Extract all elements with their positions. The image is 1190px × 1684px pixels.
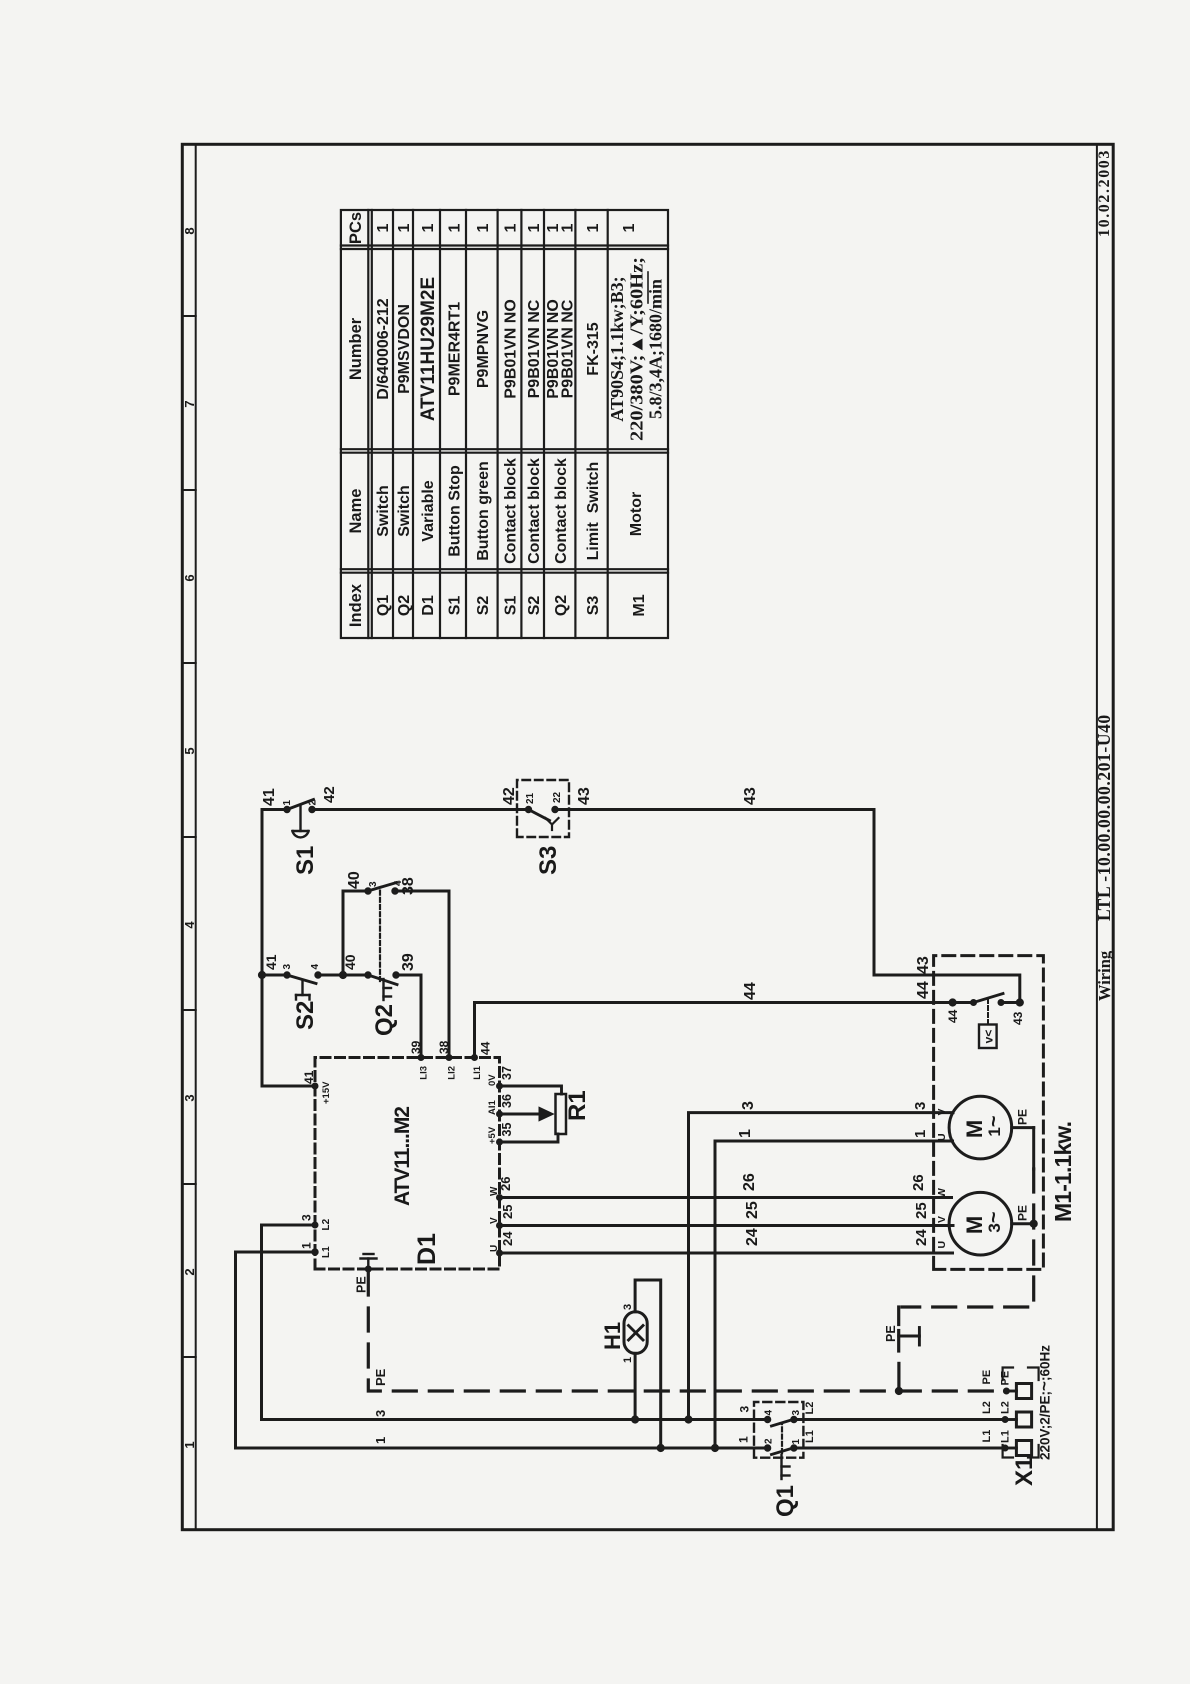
svg-text:S3: S3 [585,596,602,616]
wire 38 net Q2 aux to LI2 [395,891,449,1058]
wire 39 label at Q2 [400,953,417,971]
wire 24 net U to motor [500,1252,953,1255]
wire 25 net V to motor [500,1224,954,1227]
svg-text:3: 3 [373,1410,388,1417]
S3 roller actuator [546,818,559,830]
wire 39 net Q2 to LI3 [396,975,421,1058]
svg-text:1: 1 [560,223,577,232]
svg-text:35: 35 [500,1123,514,1137]
svg-text:LTL -10.00.00.00.201-U40: LTL -10.00.00.00.201-U40 [1094,714,1114,921]
overline over min [647,272,649,303]
svg-text:44: 44 [946,1009,960,1023]
svg-text:41: 41 [302,1070,316,1084]
D1 PE label [355,1276,369,1293]
svg-text:PE: PE [373,1368,388,1386]
svg-text:ATV11...M2: ATV11...M2 [391,1106,414,1206]
svg-text:PE: PE [1000,1371,1012,1386]
S3 pin 21 label [525,792,536,804]
wire 38 label at Q2 [400,877,417,895]
svg-text:+5V: +5V [487,1126,498,1144]
S2 pin 4 label [310,964,321,970]
svg-text:4: 4 [182,921,197,929]
svg-text:3: 3 [738,1406,752,1413]
table header row [347,212,365,627]
svg-text:43: 43 [742,787,759,805]
svg-text:1: 1 [622,1357,634,1363]
X1 terminal PE block [1006,1384,1031,1399]
svg-text:1: 1 [373,1437,388,1444]
svg-text:44: 44 [915,981,932,999]
H1 junction on wire 3 [632,1416,639,1423]
X1 terminal L1 dot [1002,1445,1008,1451]
svg-text:R1: R1 [564,1090,591,1121]
speed switch pin 44 label [946,1009,960,1023]
svg-text:Switch: Switch [396,485,413,537]
wire 37 0V to R1 [500,1086,562,1094]
svg-text:U: U [489,1245,500,1252]
Q1 mechanical link [781,1424,783,1453]
svg-text:3: 3 [368,881,379,887]
title strip line [1096,144,1098,1529]
svg-text:U: U [936,1133,948,1141]
svg-text:4: 4 [310,964,321,970]
wire 3 label top [300,1214,314,1221]
motor M 3~ PE lead [1012,1222,1034,1225]
wire 39 label at D1 [409,1040,423,1054]
svg-text:S2: S2 [292,1001,319,1030]
wire 25 labels [500,1201,930,1219]
svg-text:6: 6 [182,574,197,581]
svg-text:PE: PE [355,1276,369,1293]
wire 35 +5V to R1 [500,1134,559,1142]
svg-text:40: 40 [346,871,363,889]
wire 1 branch junction [711,1444,718,1451]
svg-text:1: 1 [585,223,602,232]
Q2 aux NO contact [365,883,398,895]
wire 36 AI1 wiper [500,1113,542,1116]
svg-text:V: V [936,1216,948,1223]
H1 junction on wire 1 [657,1444,664,1451]
Q1 pin 4 label [764,1410,775,1416]
svg-text:M1-1.1kw.: M1-1.1kw. [1050,1121,1076,1222]
svg-text:P9B01VN NC: P9B01VN NC [526,299,543,398]
wire 41 label at S1 [261,788,278,806]
svg-text:ATV11HU29M2E: ATV11HU29M2E [418,277,439,421]
svg-text:5: 5 [182,747,197,754]
svg-text:39: 39 [409,1040,423,1054]
svg-text:Contact block: Contact block [503,458,520,564]
title block date [1096,149,1113,237]
S3 limit switch dashed box [517,780,569,837]
svg-text:1: 1 [526,223,543,232]
svg-text:8: 8 [182,227,197,234]
motor M 1~ PE label [1016,1109,1030,1125]
svg-text:Number: Number [347,317,365,380]
svg-text:D1: D1 [413,1233,441,1265]
motor PE junction [1030,1220,1037,1227]
wire 40 junction [339,971,346,978]
D1 ref label [413,1233,441,1265]
D1 terminal L1 top [312,1246,332,1258]
svg-text:3: 3 [622,1304,634,1310]
svg-text:1: 1 [912,1130,929,1138]
wire 43 label below S3 [576,787,593,805]
R1 label [564,1090,591,1121]
D1 terminal U [489,1245,503,1256]
D1 name label ATV11...M2 [391,1106,414,1206]
svg-text:Q1: Q1 [772,1485,799,1517]
S3 pin 22 label [552,791,563,803]
table M1 motor data cell [607,257,666,441]
svg-text:26: 26 [910,1174,927,1191]
H1 pin 3 wire to wire 1 [635,1280,661,1448]
H1 lamp cross [629,1326,644,1341]
svg-text:42: 42 [321,786,338,803]
S2 pin 3 label [282,964,293,970]
svg-text:P9B01VN NC: P9B01VN NC [560,299,577,398]
wire 42 net S1 to S3 [312,808,529,811]
svg-text:40: 40 [342,954,358,970]
svg-text:1~: 1~ [983,1115,1005,1136]
svg-text:Q2: Q2 [553,595,570,616]
svg-text:1: 1 [791,1439,802,1445]
X1 wire labels above [981,1370,993,1443]
wire 41 label at D1 [302,1070,316,1084]
wire 40 branch to Q2 aux [343,891,368,975]
title block drawing number [1094,714,1114,921]
H1 pin 1 wire to wire 3 [634,1353,637,1419]
Q1 pole 1 contacts [764,1445,797,1455]
Q1 pin 2 label [764,1438,775,1444]
svg-text:PE: PE [981,1370,993,1385]
D1 terminal +15V [312,1081,332,1104]
table Index column cells [375,594,648,616]
svg-text:L1: L1 [981,1430,993,1443]
svg-text:Q2: Q2 [371,1004,398,1036]
wire 3 branch junction [685,1416,692,1423]
wire 3 branch labels [740,1101,929,1110]
S1 label [292,846,319,875]
X1 terminal L1 block [1005,1441,1032,1456]
svg-text:4: 4 [764,1410,775,1416]
svg-text:1: 1 [503,223,520,232]
S3 label [535,846,562,875]
Q2 label [371,1004,398,1036]
wire 44 label mid [742,982,759,1000]
D1 terminal 0V [487,1074,503,1089]
svg-text:41: 41 [261,788,278,806]
svg-text:39: 39 [400,953,417,971]
M1 motor assembly dashed box [934,956,1044,1270]
svg-text:26: 26 [498,1177,513,1191]
svg-text:44: 44 [742,982,759,1000]
S2 branch wire [262,974,287,977]
X1 label [1011,1457,1038,1486]
svg-text:LI1: LI1 [472,1065,483,1079]
PE earth symbol on motor run [899,1328,920,1346]
motor M 1~ pin labels [936,1108,948,1141]
svg-text:M1: M1 [631,594,648,616]
speed monitor v-box link [987,997,989,1024]
svg-text:1: 1 [396,223,413,232]
svg-text:PCs: PCs [347,212,365,244]
svg-text:v<: v< [982,1030,996,1044]
svg-text:2: 2 [764,1438,775,1444]
svg-text:25: 25 [744,1201,761,1219]
wire 3 number above Q1 [738,1406,752,1413]
svg-text:Variable: Variable [420,480,437,541]
table PCs column cells [375,223,638,232]
Q1 switch dashed box [754,1402,803,1458]
svg-text:U: U [936,1241,948,1249]
S2 start button contact [284,972,321,984]
D1 terminal W [489,1186,503,1201]
svg-text:2: 2 [308,800,319,806]
PE net dashed from D1 to X1 [368,1272,1003,1391]
wire 3 label left [373,1410,388,1417]
svg-text:3: 3 [182,1094,197,1101]
S1 actuator [293,806,309,837]
svg-text:1: 1 [447,223,464,232]
svg-text:1: 1 [375,223,392,232]
svg-text:P9MSVDON: P9MSVDON [396,304,413,394]
svg-text:1: 1 [475,223,492,232]
H1 lamp body [624,1312,647,1354]
motor M 1~ circle [949,1096,1012,1159]
svg-text:S1: S1 [292,846,319,875]
svg-text:25: 25 [500,1205,515,1219]
speed monitor v-box text [982,1030,996,1044]
svg-text:S2: S2 [526,596,543,616]
svg-text:37: 37 [500,1066,514,1080]
wire 44 net LI1 to speed switch [475,1003,953,1058]
S3 contact [525,806,558,820]
svg-text:P9MPNVG: P9MPNVG [475,310,492,388]
D1 terminal LI2 [446,1055,458,1080]
svg-text:38: 38 [437,1040,451,1054]
wire 43 label at motor box [915,956,932,974]
svg-text:1: 1 [282,800,293,806]
svg-text:7: 7 [182,400,197,407]
svg-text:1: 1 [420,223,437,232]
wire 44 label at motor box [915,981,932,999]
wire 3 branch to fan motor [689,1113,954,1420]
wire 40 label at junction [342,954,358,970]
svg-text:Q1: Q1 [375,595,392,616]
S1 stop button contact [284,800,315,813]
wire 41 net from +15V to S1 [262,810,315,1087]
svg-text:Switch: Switch [375,485,392,537]
parts table grid [341,210,668,638]
svg-text:LI2: LI2 [447,1066,458,1080]
title block text Wiring [1095,950,1114,1001]
motor M 3~ PE label [1016,1205,1030,1221]
svg-text:Wiring: Wiring [1095,950,1114,1001]
Q2 mechanical link [379,888,381,981]
S2 label [292,1001,319,1030]
wire 1 branch labels [737,1129,929,1138]
svg-text:S2: S2 [475,596,492,616]
wire 41 label at S2 junction [263,954,279,970]
svg-text:220V;2/PE;~;60Hz: 220V;2/PE;~;60Hz [1035,1345,1054,1460]
svg-text:38: 38 [400,877,417,895]
svg-text:1: 1 [737,1129,754,1138]
X1 terminal labels below [1000,1371,1012,1443]
X1 terminal PE dot [1003,1388,1009,1394]
S1 pin 1 label [282,800,293,806]
Q1 pole 2 contacts [764,1416,797,1426]
wire 26 net W to motor [500,1196,952,1199]
R1 potentiometer body [556,1094,567,1134]
svg-text:10.02.2003: 10.02.2003 [1096,149,1113,237]
motor M 1~ PE lead [1012,1128,1034,1169]
PE earth label [884,1325,898,1342]
motor M 3~ text [962,1211,1005,1234]
motor M 3~ circle [949,1192,1012,1255]
wire 24 labels [500,1228,930,1246]
D1 terminal L2 top [312,1218,332,1230]
svg-text:D1: D1 [420,595,437,616]
S2 actuator [296,981,310,1000]
svg-text:36: 36 [500,1094,514,1108]
svg-text:Name: Name [347,489,365,534]
wire 43 net S3 to Q2 aux b [555,810,1020,1003]
wire 1 branch to fan motor [715,1141,953,1448]
svg-text:0V: 0V [487,1074,498,1086]
wire 26 labels [498,1173,927,1191]
Q2 aux pin 4 label [393,880,404,886]
S1 pin 2 label [308,800,319,806]
H1 label [600,1322,625,1350]
svg-text:3: 3 [912,1102,929,1110]
svg-text:FK-315: FK-315 [585,322,602,375]
svg-text:P9MER4RT1: P9MER4RT1 [447,302,464,396]
svg-text:S1: S1 [447,596,464,616]
svg-text:1: 1 [621,223,638,232]
L1 label below Q1 [804,1430,816,1443]
zone ticks [182,316,195,1357]
svg-text:S1: S1 [503,596,520,616]
svg-text:Contact block: Contact block [526,458,543,564]
speed switch pin 43 label [1011,1011,1025,1025]
wire 38 label at D1 [437,1040,451,1054]
wire 3 net from D1 L2 down left side [262,1225,1006,1420]
wire 40 label at Q2 aux [346,871,363,889]
svg-text:220/380V;▲/Y;60Hz;: 220/380V;▲/Y;60Hz; [627,257,647,441]
svg-text:H1: H1 [600,1322,625,1350]
svg-text:S3: S3 [535,846,562,875]
svg-text:W: W [936,1188,948,1198]
svg-text:X1: X1 [1011,1457,1038,1486]
svg-text:AI1: AI1 [487,1100,498,1116]
svg-text:24: 24 [500,1231,515,1246]
D1 PE earth symbol [361,1254,377,1269]
wire 35 label [500,1123,514,1137]
Q1 actuator handle [782,1455,790,1479]
svg-text:44: 44 [479,1041,493,1055]
svg-text:L2: L2 [804,1402,816,1415]
svg-text:41: 41 [263,954,279,970]
svg-text:Index: Index [347,583,365,627]
table Number column cells [375,277,602,421]
speed switch contact 44-43 [949,994,1023,1007]
svg-text:42: 42 [501,787,518,805]
wire 1 label top [300,1242,314,1249]
Q1 pin 3 label [791,1410,802,1416]
svg-text:1: 1 [737,1436,751,1443]
border frame outer [182,144,1113,1529]
D1 terminal V [489,1217,503,1229]
motor PE dashed run to PE rail [902,1169,1034,1307]
svg-text:3: 3 [300,1214,314,1221]
X1 supply label 220V [1035,1345,1054,1460]
svg-text:D/640006-212: D/640006-212 [375,298,392,400]
H1 pin 3 label [622,1304,634,1310]
svg-text:Motor: Motor [628,492,645,536]
svg-text:+15V: +15V [321,1081,332,1104]
svg-text:Button green: Button green [475,461,492,561]
svg-text:1: 1 [182,1441,197,1448]
L2 label below Q1 [804,1402,816,1415]
variable speed drive D1 box [315,1058,500,1270]
border frame top inner line [195,144,197,1529]
H1 pin 1 label [622,1357,634,1363]
D1 PE terminal [365,1266,371,1272]
svg-text:25: 25 [913,1202,930,1219]
svg-text:L1: L1 [1000,1430,1012,1443]
wire 37 label [500,1066,514,1080]
svg-text:3~: 3~ [983,1211,1005,1232]
Q2 actuator handle [384,979,392,1000]
zone numbers 1-8 [182,227,197,1448]
D1 terminal +5V [487,1126,503,1145]
D1 terminal LI1 [472,1055,484,1080]
svg-text:V: V [936,1108,948,1115]
wire 1 net from D1 L1 down left side [236,1252,1006,1448]
wire 43 label mid [742,787,759,805]
speed monitor v-box [979,1025,997,1049]
svg-text:2: 2 [182,1268,197,1275]
wire 1 label left [373,1437,388,1444]
M1 assembly label [1050,1121,1076,1222]
motor M 1~ text [962,1115,1005,1138]
svg-text:43: 43 [1011,1011,1025,1025]
motor M 3~ pin labels [936,1188,948,1249]
svg-text:V: V [489,1217,500,1224]
D1 terminal AI1 [487,1100,503,1118]
svg-text:LI3: LI3 [419,1066,430,1080]
svg-text:L1: L1 [321,1246,332,1258]
wire 40 net S2 to Q2 [318,974,368,977]
svg-text:21: 21 [525,792,536,804]
table Name column cells [375,458,645,564]
Q1 pin 1 label [791,1439,802,1445]
svg-text:AT90S4;1.1kw;B3;: AT90S4;1.1kw;B3; [607,276,627,421]
svg-text:43: 43 [915,956,932,974]
Q2 aux pin 3 label [368,881,379,887]
motor PE run last segments [897,1307,900,1391]
svg-text:L1: L1 [804,1430,816,1443]
svg-text:24: 24 [744,1228,761,1246]
X1 terminal L2 block [1005,1412,1032,1427]
wire 36 label [500,1094,514,1108]
svg-text:3: 3 [740,1101,757,1110]
svg-text:PE: PE [1016,1109,1030,1125]
svg-text:3: 3 [282,964,293,970]
svg-text:L2: L2 [1000,1401,1012,1414]
svg-text:26: 26 [741,1173,758,1191]
svg-text:PE: PE [1016,1205,1030,1221]
